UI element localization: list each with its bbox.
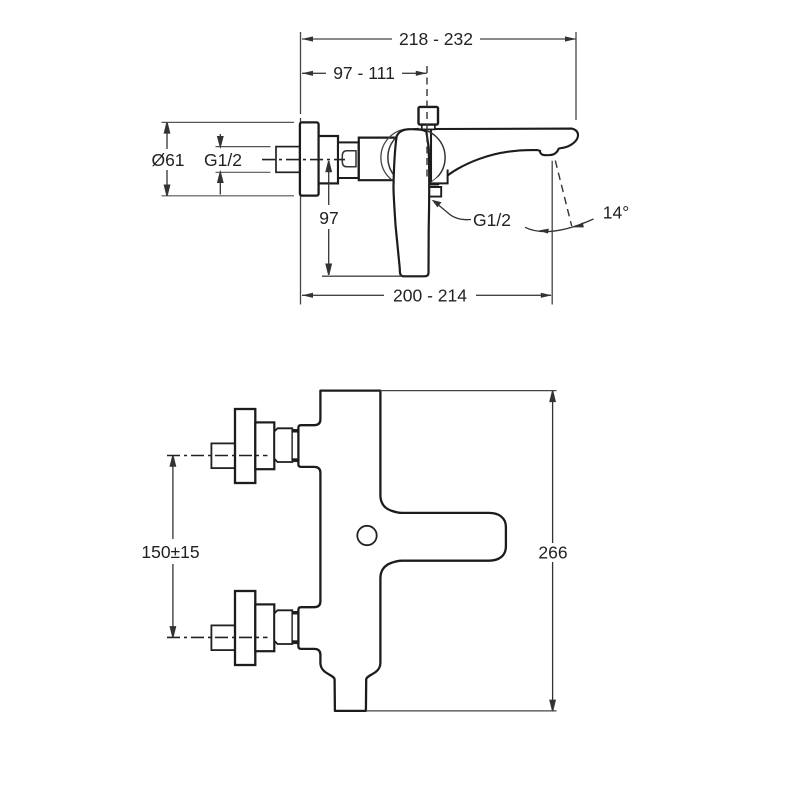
centerline top inlet (167, 455, 268, 457)
svg-text:97: 97 (319, 208, 338, 228)
retainer square inside connector (342, 151, 356, 167)
extension line left (wall plane) (300, 32, 302, 305)
valve cap front edge arc (381, 129, 410, 186)
water stream dashed line (555, 161, 571, 227)
extension line right of 218-232 (575, 32, 577, 120)
handle lever (393, 129, 429, 276)
dashed extension through knob (97-111 right) (426, 66, 428, 180)
mixer body front view (298, 391, 506, 711)
bottom thread ring (292, 612, 298, 644)
shower outlet step G1/2 (430, 187, 441, 197)
diverter knob stem (422, 124, 435, 129)
14 degree arc (525, 219, 594, 232)
dimension 200-214 line (302, 294, 551, 296)
G1/2 dimension arrows outside (218, 134, 223, 195)
centerline top drawing (262, 159, 345, 161)
dimension 218-232 line (302, 38, 576, 40)
top thread ring (292, 430, 298, 462)
wall pipe tail G1/2 (276, 147, 300, 173)
bottom union nut (255, 604, 274, 651)
spout (431, 129, 578, 185)
step under body (430, 170, 448, 184)
top inlet pipe tail (211, 443, 235, 468)
dimension 266 vertical (550, 391, 555, 711)
bottom cone piece (274, 610, 292, 644)
dimension 97-111 arrows (302, 71, 427, 76)
extension line 266 top (380, 390, 556, 392)
dimension 200-214 text (384, 285, 476, 306)
extension line right (spout tip) (551, 161, 553, 305)
top cone piece (274, 428, 292, 462)
extension line 266 bottom (366, 710, 557, 712)
diverter knob (419, 107, 439, 125)
top union nut (255, 422, 274, 469)
dimension 97-111 text (326, 62, 402, 83)
Ø61 dimension arrows (164, 122, 169, 195)
svg-text:97 - 111: 97 - 111 (333, 63, 395, 83)
svg-text:200 - 214: 200 - 214 (393, 286, 467, 306)
screw hole circle (357, 526, 376, 545)
dimension 218-232 text (392, 28, 480, 49)
valve cap circle (388, 129, 445, 186)
centerline bottom inlet (167, 636, 268, 638)
extension line under handle tip (322, 275, 402, 277)
svg-text:218 - 232: 218 - 232 (399, 29, 473, 49)
svg-text:Ø61: Ø61 (151, 150, 184, 170)
connector piece (338, 142, 359, 178)
dimension 200-214 arrows (302, 293, 552, 298)
bottom inlet pipe tail (211, 625, 235, 650)
svg-text:14°: 14° (603, 203, 629, 223)
Ø61 extension lines (162, 122, 295, 195)
dimension 97 vertical (326, 161, 331, 275)
valve body cylinder (359, 138, 400, 181)
bottom inlet flange (235, 591, 255, 665)
svg-text:G1/2: G1/2 (473, 210, 511, 230)
svg-text:G1/2: G1/2 (204, 150, 242, 170)
G1/2 extension lines (left pipe) (216, 147, 271, 173)
svg-text:266: 266 (538, 543, 567, 563)
union nut piece (319, 136, 338, 183)
top inlet flange (235, 409, 255, 483)
dimension 97-111 line (302, 72, 427, 74)
svg-text:150±15: 150±15 (141, 542, 199, 562)
wall flange (300, 122, 319, 195)
dimension 218-232 arrows (302, 36, 576, 41)
body shoulder top left (400, 129, 419, 134)
dimension 150+-15 vertical (170, 456, 175, 638)
arc arrowheads (539, 229, 549, 234)
